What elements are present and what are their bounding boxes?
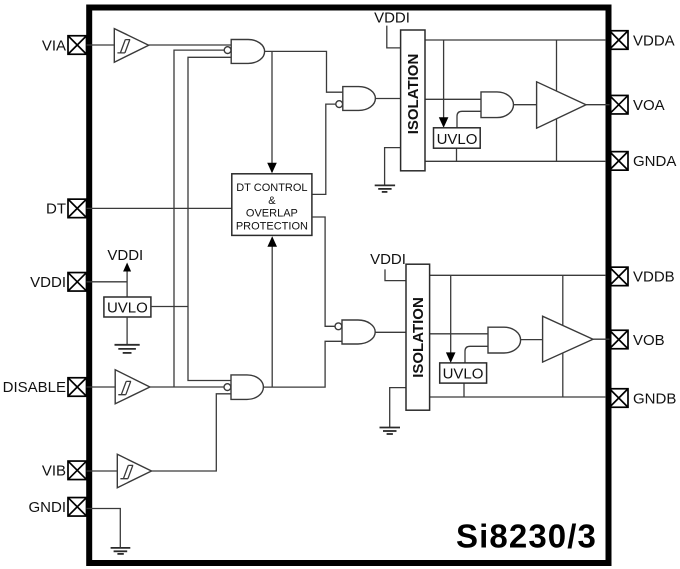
AND gate A1 (336, 87, 376, 111)
wire UVLO A bottom to GNDA rail (456, 148, 458, 161)
pin VIB (68, 461, 87, 480)
svg-text:VDDB: VDDB (633, 269, 675, 286)
wire GNDI pin to ground (87, 509, 121, 548)
svg-text:GNDI: GNDI (29, 499, 67, 516)
wire AND B2 output to buffer B (521, 339, 543, 341)
pin DISABLE (68, 378, 87, 397)
pin VDDA (610, 31, 629, 50)
wire power vertical A (behind output buffer) (556, 40, 558, 161)
wire buffer DISABLE out to NAND B inverted input (150, 386, 224, 388)
wire UVLO input side ground (126, 317, 128, 344)
wire DT control lower right port to AND B1 inverted input (312, 217, 335, 326)
svg-text:ISOLATION: ISOLATION (405, 54, 422, 135)
wire UVLO B to AND B2 lower input (465, 346, 488, 363)
output buffer A (537, 82, 586, 128)
pin VOB (610, 330, 629, 349)
wire VDDA rail to UVLO A (arrow) (443, 40, 445, 127)
svg-text:DT: DT (46, 201, 66, 218)
pin GNDI (68, 498, 87, 517)
pin GNDA (610, 152, 629, 171)
svg-text:VIB: VIB (42, 463, 66, 480)
svg-text:VIA: VIA (42, 37, 66, 54)
svg-text:GNDB: GNDB (633, 390, 676, 407)
UVLO box (channel B) (440, 363, 487, 383)
schmitt trigger buffer (VIB) (117, 454, 151, 487)
svg-text:VDDI: VDDI (374, 10, 410, 27)
AND gate B1 (335, 320, 375, 344)
pin GNDB (610, 389, 629, 408)
UVLO box (channel A) (434, 128, 481, 148)
AND gate A2 (output stage) (481, 92, 514, 118)
svg-text:VOA: VOA (633, 97, 665, 114)
wire NAND A output down to DT control box (arrow) (271, 51, 273, 172)
wire isolation A output to AND A2 (425, 98, 481, 100)
svg-text:VDDI: VDDI (370, 251, 406, 268)
pin VOA (610, 95, 629, 114)
NAND gate A (input side) (224, 40, 264, 64)
wire VIA pin to schmitt buffer (87, 44, 115, 46)
wire VIB pin to schmitt buffer (87, 470, 118, 472)
svg-text:VDDI: VDDI (107, 247, 143, 264)
isolation block B (406, 264, 430, 410)
wire AND A1 inverted input to DT control box upper right port (312, 104, 336, 194)
svg-text:DT CONTROL: DT CONTROL (236, 182, 307, 194)
wire GNDA rail (425, 160, 606, 162)
svg-text:VDDI: VDDI (30, 274, 66, 291)
wire buffer VIB out to NAND B bottom input (152, 394, 232, 471)
ground (GNDI) (111, 548, 131, 554)
svg-text:ISOLATION: ISOLATION (410, 297, 427, 378)
pin VDDI (68, 273, 87, 292)
output buffer B (543, 316, 593, 362)
wire isolation B ground stub (390, 388, 406, 427)
wire VDDA rail (425, 39, 606, 41)
wire AND A1 output to isolation A (375, 98, 400, 100)
wire GNDB rail (430, 396, 606, 398)
wire UVLO A to AND A2 lower input (457, 111, 481, 128)
wire UVLO B bottom to GNDB rail (463, 383, 465, 397)
wire VDDI pin to UVLO net (87, 281, 128, 283)
pin DT (68, 199, 87, 218)
wire VDDI B to isolation B (385, 269, 406, 280)
wire NAND B output up to DT control box (arrow) (271, 238, 273, 388)
pin VDDB (610, 267, 629, 286)
wire DT pin to DT control box (87, 207, 232, 209)
wire NAND A bottom input to V2 vertical then NAND B top input (188, 57, 231, 380)
svg-text:VOB: VOB (633, 332, 665, 349)
wire AND A2 output to buffer A (514, 104, 537, 106)
svg-text:Si8230/3: Si8230/3 (456, 518, 597, 555)
wire AND B1 output to isolation B (375, 331, 406, 333)
chip body outline Si8230/3 (89, 8, 608, 564)
svg-text:UVLO: UVLO (107, 299, 148, 316)
schmitt trigger buffer (DISABLE) (115, 370, 150, 404)
ground (isolation A) (375, 185, 395, 192)
wire VDDB rail (430, 274, 606, 276)
svg-text:&: & (268, 195, 276, 207)
svg-text:UVLO: UVLO (437, 131, 478, 148)
wire isolation A ground stub (385, 148, 401, 185)
wire NAND A middle input to V1 vertical (DISABLE net) (174, 50, 224, 387)
ground (isolation B) (380, 428, 401, 435)
NAND gate B (input side) (224, 375, 263, 400)
svg-text:OVERLAP: OVERLAP (246, 208, 298, 220)
ground (input side UVLO) (115, 345, 140, 353)
svg-text:UVLO: UVLO (443, 366, 484, 383)
svg-text:DISABLE: DISABLE (3, 379, 66, 396)
AND gate B2 (output stage) (488, 327, 521, 353)
svg-text:GNDA: GNDA (633, 153, 676, 170)
wire VDDB rail to UVLO B (arrow) (450, 275, 452, 361)
wire buffer B output to VOB pin (593, 338, 610, 340)
wire DISABLE pin to schmitt buffer (87, 386, 116, 388)
wire isolation B output to AND B2 (430, 333, 488, 335)
isolation block A (401, 30, 425, 171)
DT control and overlap protection box (232, 174, 312, 236)
wire VDDI A to isolation A (387, 26, 401, 48)
wire buffer VIA out to NAND A top input (149, 44, 232, 46)
wire UVLO input side output to V2 net (151, 306, 188, 308)
schmitt trigger buffer (VIA) (114, 29, 148, 63)
wire buffer A output to VOA pin (586, 104, 610, 106)
wire NAND B output to AND B1 bottom input (263, 341, 342, 387)
pin VIA (68, 36, 87, 55)
svg-text:PROTECTION: PROTECTION (236, 220, 308, 232)
UVLO box (input side) (104, 297, 151, 317)
wire power vertical B (behind output buffer) (562, 275, 564, 397)
wire NAND A output to AND A1 top input (265, 51, 343, 92)
wire VDDI arrow up from UVLO input side (126, 269, 128, 297)
svg-text:VDDA: VDDA (633, 32, 675, 49)
